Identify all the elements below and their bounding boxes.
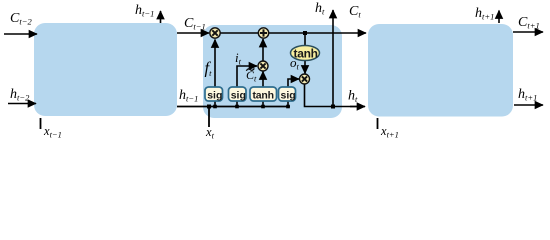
svg-text:tanh: tanh <box>253 89 274 101</box>
LSTM cell block t <box>203 25 342 118</box>
wire C_{t-2} input arrow <box>4 33 37 35</box>
wire h_{t-1} input rail <box>177 106 290 108</box>
svg-text:ht−2: ht−2 <box>10 87 30 103</box>
wire forget-gate column f_t <box>214 40 216 107</box>
svg-text:sig: sig <box>281 89 296 101</box>
wire output multiplier down and right h_t <box>305 84 361 107</box>
wire x_{t-1} input tick <box>40 118 42 129</box>
svg-text:Ct+1: Ct+1 <box>518 15 540 31</box>
junction rail col3 <box>261 105 265 109</box>
activation tanh ellipse <box>291 46 320 61</box>
wire h_t riser to top output <box>332 10 334 107</box>
svg-text:sig: sig <box>231 89 246 101</box>
svg-text:ht−1: ht−1 <box>135 3 154 19</box>
wire h_{t+1} top output arrow <box>498 11 500 24</box>
wire h_{t+1} bottom output arrow <box>514 104 543 106</box>
svg-text:Ct: Ct <box>349 4 361 20</box>
wire C_{t+1} output arrow <box>513 31 543 33</box>
junction tanh branch <box>303 31 307 35</box>
op add on C line <box>258 28 268 38</box>
svg-text:sig: sig <box>207 89 222 101</box>
wire h_{t-1} top output arrow <box>160 11 162 23</box>
LSTM cell block t-1 <box>34 23 177 116</box>
wire candidate column C~_t <box>262 72 264 107</box>
svg-text:ht+1: ht+1 <box>475 6 494 22</box>
op multiply output gate <box>300 74 310 84</box>
gate sig 1 (forget) <box>205 87 223 101</box>
junction h riser <box>331 105 335 109</box>
wire C_{t-1} cell-state line into multiplier <box>177 32 209 34</box>
gate sig 2 (input) <box>229 87 247 101</box>
wire multiplier to adder <box>262 39 264 61</box>
wire x_t input drop <box>208 107 210 128</box>
wire x_{t+1} input tick <box>377 118 379 129</box>
junction rail col4 <box>286 105 290 109</box>
junction rail col2 <box>235 105 239 109</box>
svg-text:ht: ht <box>348 89 358 105</box>
op multiply on C line <box>210 28 220 38</box>
LSTM cell block t+1 <box>368 24 513 117</box>
gate tanh (candidate) <box>250 87 277 101</box>
svg-text:ht: ht <box>315 1 325 17</box>
wire cell-state line multiplier to adder to C_t output <box>220 32 258 34</box>
junction rail col1 <box>213 105 217 109</box>
op multiply input gate <box>258 61 268 71</box>
wire output-gate column o_t <box>288 79 295 101</box>
svg-text:Ct−1: Ct−1 <box>184 16 206 32</box>
svg-text:ht+1: ht+1 <box>518 87 537 103</box>
svg-text:xt: xt <box>205 125 215 140</box>
wire tanh to output multiplier <box>304 60 306 74</box>
wire branch down to tanh <box>304 33 306 47</box>
svg-text:tanh: tanh <box>294 47 318 61</box>
svg-text:xt−1: xt−1 <box>43 124 62 140</box>
svg-text:ht−1: ht−1 <box>179 88 198 104</box>
junction x_t on rail <box>207 105 211 109</box>
wire input-gate column i_t <box>237 66 253 101</box>
gate sig 3 (output) <box>279 87 296 101</box>
svg-text:Ct−2: Ct−2 <box>10 11 32 27</box>
svg-text:xt+1: xt+1 <box>380 124 399 140</box>
wire h_{t-2} input arrow <box>8 103 36 105</box>
